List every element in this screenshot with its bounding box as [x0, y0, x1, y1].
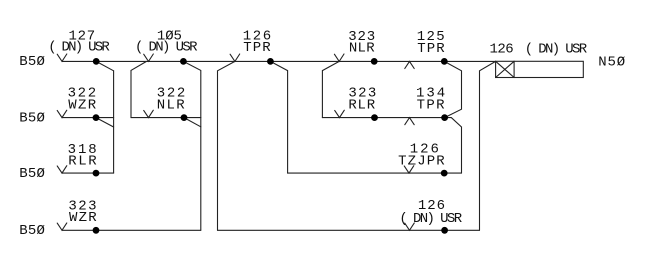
svg-text:TPR: TPR: [417, 98, 445, 114]
wire branch from rail at 126TPR down to row 4 right: [218, 61, 235, 230]
terminal dot of contact 318 RLR: [93, 170, 100, 177]
contact 323 RLR: [335, 110, 345, 117]
svg-text:( DN) USR: ( DN) USR: [48, 40, 110, 56]
contact 126 TZJPR: [404, 166, 414, 173]
terminal dot of contact 134 TPR: [441, 114, 448, 121]
wire row 2 left segment: [62, 117, 114, 119]
svg-text:WZR: WZR: [68, 97, 96, 113]
svg-text:( DN) USR: ( DN) USR: [135, 40, 198, 56]
terminal dot of contact 322 NLR: [181, 114, 188, 121]
terminal dot of contact 322 WZR: [93, 114, 100, 121]
contact 126 (DN) USR row 4: [405, 223, 415, 230]
terminal dot of contact 126 TPR: [267, 58, 274, 65]
svg-text:( DN) USR: ( DN) USR: [525, 42, 588, 58]
wire right side of parallel group down to row 4: [183, 61, 200, 230]
svg-text:B5Ø: B5Ø: [19, 110, 45, 126]
wire diagonal from junction D1: [96, 61, 113, 70]
relay coil 126 (DN) USR: [496, 61, 584, 77]
terminal dot of contact 323 WZR: [93, 227, 100, 234]
wire row 2 NLR branch segment: [131, 117, 201, 119]
wire row 4 right branch segment: [218, 229, 480, 231]
wire row 2 right branch segment: [322, 117, 444, 119]
contact 323 WZR: [57, 223, 67, 230]
svg-text:B5Ø: B5Ø: [19, 54, 45, 70]
back contact 134 TPR: [405, 118, 414, 125]
wire vertical joining rows 1-2-3 at left: [113, 71, 115, 173]
contact 127 (DN) USR: [57, 54, 67, 61]
wire from junction D11 down to TZJPR right end: [445, 118, 462, 174]
svg-text:NLR: NLR: [157, 98, 185, 114]
svg-text:WZR: WZR: [69, 210, 97, 226]
wire branch from rail at 323NLR down to 323RLR row: [322, 61, 339, 117]
contact 322 NLR: [144, 110, 154, 117]
wire diagonal from junction D6: [184, 118, 201, 127]
wire from junction D9 down to junction D11: [444, 61, 461, 117]
svg-text:B5Ø: B5Ø: [19, 166, 45, 182]
svg-text:TZJPR: TZJPR: [398, 153, 445, 169]
wire left side of 105USR/322NLR parallel group: [131, 61, 147, 117]
wire from row 4 right end up to coil: [480, 61, 496, 230]
wire top rail row 1: [62, 60, 496, 62]
svg-text:B5Ø: B5Ø: [19, 223, 45, 239]
wire branch from junction D7 down to TZJPR row: [270, 61, 287, 173]
contact 322 WZR: [57, 110, 67, 117]
contact 318 RLR: [57, 166, 67, 173]
svg-text:( DN) USR: ( DN) USR: [399, 211, 462, 227]
terminal dot of contact 125 TPR: [441, 58, 448, 65]
svg-text:126: 126: [490, 42, 514, 58]
contact 105 (DN) USR: [144, 54, 154, 61]
terminal dot of contact 323 RLR: [371, 114, 378, 121]
terminal dot of contact 126 TZJPR: [441, 170, 448, 177]
terminal dot of contact 126 (DN) USR row 4: [441, 227, 448, 234]
svg-text:N5Ø: N5Ø: [598, 55, 625, 71]
svg-text:RLR: RLR: [68, 154, 97, 170]
svg-text:TPR: TPR: [417, 41, 445, 57]
terminal dot of contact 127: [93, 58, 100, 65]
terminal dot of contact 105: [180, 58, 187, 65]
wire row 4 left segment: [62, 229, 201, 231]
wire row 3 TZJPR branch segment: [288, 172, 462, 174]
contact 323 NLR: [334, 54, 344, 61]
wire row 3 left segment: [62, 172, 114, 174]
svg-text:NLR: NLR: [349, 40, 375, 56]
svg-text:TPR: TPR: [243, 40, 271, 56]
contact 126 TPR: [230, 54, 240, 61]
svg-text:RLR: RLR: [348, 98, 375, 114]
terminal dot of contact 323 NLR: [371, 58, 378, 65]
wire diagonal from junction D2: [96, 118, 114, 127]
back contact 125 TPR: [405, 61, 414, 68]
